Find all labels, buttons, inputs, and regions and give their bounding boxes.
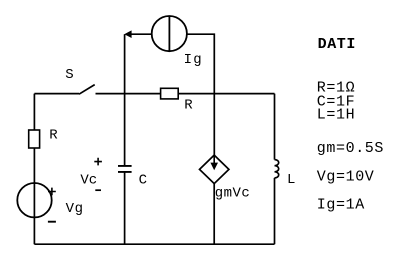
svg-text:C: C	[139, 173, 147, 189]
svg-text:DATI: DATI	[318, 36, 356, 53]
svg-text:gm=0.5S: gm=0.5S	[317, 140, 384, 157]
current source Ig inner bar	[168, 16, 170, 51]
Vg plus sign	[48, 188, 56, 196]
Vc plus sign	[94, 158, 102, 166]
voltage source Vg	[17, 183, 51, 217]
svg-text:Vg: Vg	[66, 201, 84, 217]
svg-text:L=1H: L=1H	[317, 106, 355, 123]
inductor L coil	[275, 160, 279, 178]
wire left rail vertical	[33, 94, 35, 245]
wire right rail lower	[274, 178, 276, 244]
resistor R1 (left)	[29, 130, 40, 148]
bottom rail wire	[34, 243, 274, 245]
svg-text:gmVc: gmVc	[215, 185, 251, 201]
Ig arrow head	[124, 30, 131, 38]
wire capacitor branch vertical (from Ig arrow corner down to cap)	[124, 34, 126, 166]
wire top-left horizontal to switch	[34, 93, 79, 95]
svg-text:Ig: Ig	[184, 52, 203, 68]
svg-text:Vc: Vc	[80, 173, 97, 189]
wire below diamond	[213, 184, 215, 245]
svg-text:R: R	[49, 128, 58, 144]
gmVc arrow head	[210, 163, 218, 171]
capacitor C plates	[118, 166, 132, 172]
gmVc arrow line	[213, 156, 215, 164]
Vc minus sign	[95, 189, 101, 191]
wire right rail upper	[274, 94, 276, 160]
svg-text:Vg=10V: Vg=10V	[317, 168, 375, 185]
wire below capacitor	[124, 172, 126, 244]
svg-text:S: S	[65, 67, 73, 83]
current source Ig circle	[152, 16, 187, 51]
svg-text:R: R	[184, 98, 193, 114]
Vg minus sign	[48, 221, 56, 223]
dependent source gmVc diamond	[200, 155, 229, 184]
resistor R2 (middle horizontal)	[161, 88, 179, 99]
wire from Ig circle to left	[130, 33, 152, 35]
wire top horizontal from switch to top-right corner	[96, 93, 275, 95]
svg-text:Ig=1A: Ig=1A	[317, 196, 365, 213]
switch S blade	[79, 85, 95, 95]
svg-text:L: L	[287, 172, 295, 188]
wire from Ig circle to right and down	[187, 34, 214, 155]
